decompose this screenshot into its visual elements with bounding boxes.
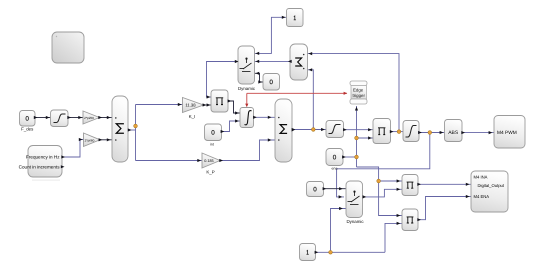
svg-text:F_des: F_des xyxy=(21,127,34,132)
svg-text:0.185: 0.185 xyxy=(204,159,214,163)
svg-text:M4 ENA: M4 ENA xyxy=(474,194,490,199)
svg-text:M4 INA: M4 INA xyxy=(474,175,488,180)
svg-text:M4 PWM: M4 PWM xyxy=(497,130,517,136)
svg-text:K_P: K_P xyxy=(206,170,214,175)
svg-text:2*pi/60: 2*pi/60 xyxy=(84,116,94,120)
svg-text:Frequency in Hz: Frequency in Hz xyxy=(26,155,60,160)
svg-text:Edge: Edge xyxy=(353,88,364,93)
svg-text:int: int xyxy=(210,143,214,147)
svg-text:ena: ena xyxy=(332,166,338,170)
svg-text:ABS: ABS xyxy=(448,130,459,136)
svg-text:trigger: trigger xyxy=(353,93,366,98)
svg-text:Dynamic: Dynamic xyxy=(238,86,256,91)
svg-text:Digital_Output: Digital_Output xyxy=(478,183,505,188)
svg-text:Count in increments: Count in increments xyxy=(19,164,61,169)
svg-text:11.38: 11.38 xyxy=(185,103,196,108)
svg-text:Dynamic: Dynamic xyxy=(346,219,364,224)
svg-text:K_I: K_I xyxy=(189,114,196,119)
svg-text:2*pi/60: 2*pi/60 xyxy=(85,138,95,142)
